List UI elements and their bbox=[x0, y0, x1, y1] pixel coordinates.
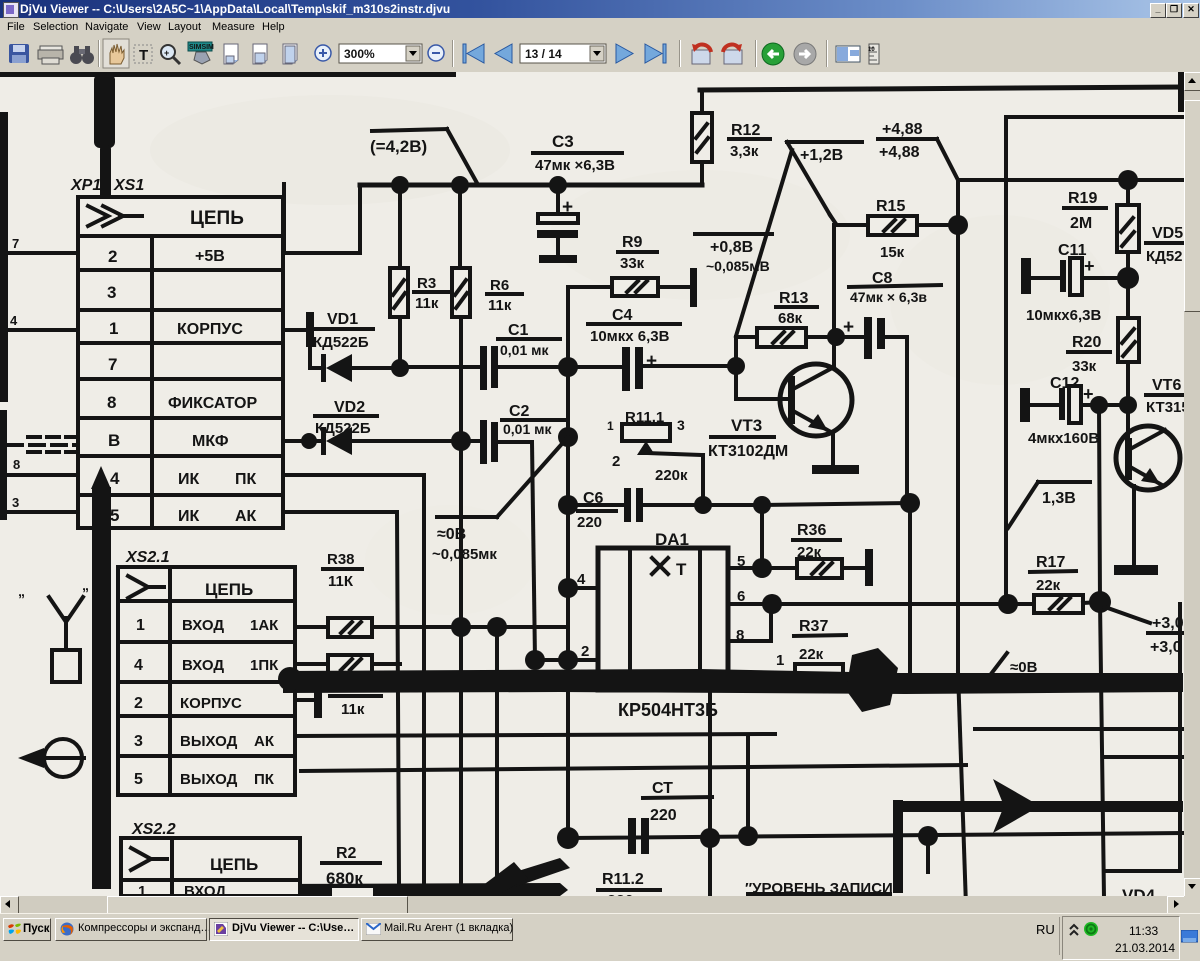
label =0V right pointer bbox=[991, 653, 1038, 676]
node R17 right bbox=[1089, 591, 1111, 613]
svg-text:T: T bbox=[139, 47, 148, 64]
node VD2/R6 bbox=[451, 431, 471, 451]
svg-text:4: 4 bbox=[577, 571, 586, 588]
DA1 pin 4 bbox=[558, 571, 598, 598]
capacitor C2 bbox=[461, 403, 564, 660]
wire VYHOD AK bbox=[295, 734, 775, 736]
svg-text:R19: R19 bbox=[1068, 190, 1097, 207]
scan artifact top edge line bbox=[0, 72, 456, 77]
svg-text:КТ3102ДМ: КТ3102ДМ bbox=[708, 443, 788, 460]
svg-text:1: 1 bbox=[138, 883, 146, 896]
svg-text:R9: R9 bbox=[622, 234, 643, 251]
svg-text:XS1: XS1 bbox=[113, 177, 144, 194]
label +4,88 bbox=[878, 121, 958, 180]
svg-text:ВХОД: ВХОД bbox=[184, 883, 226, 896]
node R11 wiper bbox=[694, 496, 712, 514]
svg-text:0,01 мк: 0,01 мк bbox=[503, 421, 552, 437]
node R15 right bbox=[948, 215, 968, 235]
svg-text:1: 1 bbox=[136, 617, 145, 634]
svg-text:„: „ bbox=[18, 583, 25, 599]
page single bbox=[224, 44, 238, 64]
wire center bus x568 bbox=[566, 287, 570, 838]
svg-text:R12: R12 bbox=[731, 122, 760, 139]
DA1 pin 5 bbox=[728, 505, 797, 578]
svg-text:0,01 мк: 0,01 мк bbox=[500, 342, 549, 358]
wire bottom rail h837 bbox=[568, 833, 1183, 838]
svg-text:6: 6 bbox=[737, 588, 745, 605]
svg-text:В: В bbox=[108, 431, 120, 450]
svg-text:33к: 33к bbox=[1072, 358, 1097, 375]
svg-text:ЦЕПЬ: ЦЕПЬ bbox=[190, 208, 244, 229]
svg-text:5: 5 bbox=[110, 506, 119, 525]
svg-text:C4: C4 bbox=[612, 307, 633, 324]
wire tap rail x497 bbox=[495, 627, 499, 884]
svg-text:2: 2 bbox=[612, 453, 620, 470]
svg-text:10мкх 6,3В: 10мкх 6,3В bbox=[590, 328, 670, 345]
resistor R11.2 bbox=[598, 871, 660, 910]
svg-text:КОРПУС: КОРПУС bbox=[177, 321, 243, 338]
svg-text:11к: 11к bbox=[415, 295, 439, 312]
svg-text:SIMSIM: SIMSIM bbox=[189, 44, 214, 51]
svg-text:22к: 22к bbox=[799, 646, 824, 663]
svg-text:ВЫХОД: ВЫХОД bbox=[180, 771, 238, 788]
svg-text:КД522Б: КД522Б bbox=[313, 334, 369, 351]
svg-text:C6: C6 bbox=[583, 490, 604, 507]
separator bbox=[452, 40, 453, 67]
node h833 bbox=[918, 826, 938, 872]
connector XS2.2 label bbox=[131, 821, 176, 838]
svg-text:~0,085мВ: ~0,085мВ bbox=[706, 258, 770, 274]
svg-text:КР504НТ3Б: КР504НТ3Б bbox=[618, 700, 718, 720]
svg-text:R2: R2 bbox=[336, 845, 357, 862]
svg-text:XS2.1: XS2.1 bbox=[125, 549, 170, 566]
node R19/R20 bbox=[1117, 267, 1139, 289]
svg-text:МКФ: МКФ bbox=[192, 433, 229, 450]
stamp tool bbox=[188, 42, 214, 64]
svg-text:300%: 300% bbox=[344, 47, 375, 61]
print bbox=[38, 46, 63, 64]
capacitor C12 bbox=[1020, 375, 1128, 447]
node C12 bbox=[1090, 396, 1137, 414]
svg-text:+4,88: +4,88 bbox=[879, 144, 920, 161]
resistor R38 bbox=[295, 551, 568, 637]
rotate left bbox=[692, 44, 711, 64]
zoom out bbox=[428, 45, 444, 61]
svg-text:R6: R6 bbox=[490, 277, 509, 294]
svg-text:VD1: VD1 bbox=[327, 311, 358, 328]
svg-text:1: 1 bbox=[776, 652, 784, 669]
resistor R17 bbox=[998, 554, 1100, 614]
label +1,2V bbox=[787, 142, 862, 224]
connector table XP1/XS1 bbox=[78, 197, 283, 528]
antenna symbol bbox=[18, 577, 89, 682]
back bbox=[762, 43, 784, 65]
scan artifact thick band bbox=[278, 648, 1183, 712]
connector XS2.1 label bbox=[125, 549, 170, 566]
label +3,0 pointer bbox=[1105, 607, 1184, 656]
binoculars bbox=[70, 46, 94, 64]
svg-text:C2: C2 bbox=[509, 403, 530, 420]
zoom in bbox=[315, 45, 331, 61]
svg-text:2: 2 bbox=[134, 695, 143, 712]
capacitor CT bbox=[628, 780, 712, 854]
svg-text:КД52: КД52 bbox=[1146, 248, 1183, 265]
svg-text:22к: 22к bbox=[1036, 577, 1061, 594]
scan artifact right edge bbox=[1178, 72, 1184, 112]
DA1 pin 6 bbox=[728, 588, 1008, 614]
node base rail bbox=[900, 493, 920, 513]
svg-text:1: 1 bbox=[607, 419, 614, 433]
wire rail x710 bbox=[708, 694, 712, 896]
svg-text:4: 4 bbox=[110, 469, 120, 488]
potentiometer R11.1 bbox=[607, 409, 703, 505]
svg-text:VT3: VT3 bbox=[731, 416, 762, 435]
resistor R3 bbox=[390, 185, 449, 367]
svg-text:1: 1 bbox=[109, 319, 118, 338]
node C6 bus bbox=[558, 495, 578, 515]
first page bbox=[463, 44, 484, 63]
separator bbox=[826, 40, 827, 67]
svg-text:4: 4 bbox=[10, 313, 18, 328]
connector table XS2.1 bbox=[118, 567, 295, 795]
node pin5 riser bbox=[753, 496, 771, 514]
vertical scrollbar bbox=[1184, 72, 1200, 896]
label KR504NT3B bbox=[618, 700, 718, 720]
capacitor C11 bbox=[1021, 242, 1128, 324]
wire C6 to VT3 base node bbox=[762, 503, 910, 505]
svg-text:8: 8 bbox=[107, 393, 116, 412]
svg-text:R3: R3 bbox=[417, 275, 436, 292]
wire upper loop to R12 bbox=[700, 90, 704, 185]
resistor R12 bbox=[692, 113, 770, 162]
svg-text:ЦЕПЬ: ЦЕПЬ bbox=[205, 580, 253, 599]
label =0V pointer bbox=[432, 437, 568, 563]
diode VD1 bbox=[283, 311, 400, 382]
node C2 bus bbox=[558, 427, 578, 447]
page continuous bbox=[283, 44, 297, 64]
page facing bbox=[253, 44, 267, 64]
svg-text:3: 3 bbox=[134, 733, 143, 750]
svg-text:АК: АК bbox=[254, 733, 275, 750]
node on rail bbox=[391, 176, 567, 194]
wire VD1 node to C1 bbox=[400, 365, 482, 369]
wire rail x748 bbox=[746, 735, 750, 836]
svg-text:47мк ×6,3В: 47мк ×6,3В bbox=[535, 157, 615, 174]
resistor R19 bbox=[1064, 170, 1139, 278]
label +0,8V pointer bbox=[695, 150, 792, 336]
page combo bbox=[520, 44, 606, 63]
svg-text:4мкх160В: 4мкх160В bbox=[1028, 430, 1099, 447]
resistor R20 bbox=[1068, 278, 1139, 405]
wire frame corner bbox=[1006, 117, 1183, 604]
svg-text:КОРПУС: КОРПУС bbox=[180, 695, 242, 712]
XS2.1 socket symbol bbox=[128, 576, 164, 598]
svg-text:C1: C1 bbox=[508, 322, 529, 339]
prev page bbox=[495, 44, 512, 63]
resistor R2 bbox=[322, 845, 380, 906]
svg-text:5: 5 bbox=[134, 771, 143, 788]
resistor R37 bbox=[794, 618, 846, 682]
wire top bus bbox=[700, 87, 1183, 90]
scan artifact top blob bbox=[94, 74, 115, 200]
svg-text:+1,2В: +1,2В bbox=[800, 147, 843, 164]
svg-text:8: 8 bbox=[13, 457, 20, 472]
svg-text:10мкх6,3В: 10мкх6,3В bbox=[1026, 307, 1101, 324]
svg-text:5: 5 bbox=[737, 553, 745, 570]
svg-text:ПК: ПК bbox=[235, 471, 257, 488]
svg-text:7: 7 bbox=[12, 236, 19, 251]
svg-text:(=4,2В): (=4,2В) bbox=[370, 137, 427, 156]
svg-text:ЦЕПЬ: ЦЕПЬ bbox=[210, 855, 258, 874]
svg-text:СТ: СТ bbox=[652, 780, 673, 797]
XS2.2 socket symbol bbox=[131, 848, 167, 870]
left pin 8 wire bbox=[8, 457, 78, 475]
T select bbox=[134, 45, 152, 64]
separator bbox=[679, 40, 680, 67]
diode VD5 label bbox=[1146, 225, 1183, 265]
left pin 4 wire bbox=[2, 313, 78, 330]
DA1 pin 8 bbox=[728, 604, 771, 644]
node CT left bbox=[557, 827, 579, 849]
left pin 7 wire bbox=[2, 236, 78, 253]
IC DA1 bbox=[598, 530, 728, 690]
svg-text:1ПК: 1ПК bbox=[250, 657, 279, 674]
connector XP1/XS1 labels bbox=[70, 177, 144, 194]
capacitor C4 bbox=[568, 307, 736, 391]
svg-text:220: 220 bbox=[577, 514, 602, 531]
node C4 right bbox=[727, 357, 745, 375]
resistor R9 bbox=[568, 234, 697, 307]
magnifier bbox=[161, 45, 180, 64]
node collector/R13 bbox=[827, 328, 845, 346]
wire grid right h872 bbox=[1104, 869, 1180, 873]
node VD1/R3 bbox=[391, 359, 409, 377]
svg-text:R17: R17 bbox=[1036, 554, 1065, 571]
left dashed wires bbox=[8, 437, 78, 452]
DA1 pin 1 bbox=[776, 652, 784, 669]
svg-text:3: 3 bbox=[677, 417, 685, 433]
wire right rail bbox=[958, 178, 1183, 182]
svg-text:47мк × 6,3в: 47мк × 6,3в bbox=[850, 289, 927, 305]
rotate right bbox=[723, 44, 742, 64]
svg-text:АК: АК bbox=[235, 508, 257, 525]
svg-text:3,3к: 3,3к bbox=[730, 143, 759, 160]
connector table XS2.2 bbox=[121, 838, 300, 900]
label 1,3V pointer bbox=[1008, 482, 1090, 528]
svg-text:7: 7 bbox=[108, 355, 117, 374]
svg-text:R38: R38 bbox=[327, 551, 355, 568]
svg-text:ВХОД: ВХОД bbox=[182, 617, 224, 634]
transistor VT3 bbox=[708, 364, 859, 474]
svg-text:ИК: ИК bbox=[178, 508, 200, 525]
measure icon bbox=[868, 44, 879, 64]
svg-text:R15: R15 bbox=[876, 198, 905, 215]
svg-text:+4,88: +4,88 bbox=[882, 121, 923, 138]
svg-text:8: 8 bbox=[736, 627, 744, 644]
svg-text:11к: 11к bbox=[341, 701, 365, 718]
transistor VT6 bbox=[1114, 377, 1190, 575]
resistor R39 bbox=[295, 655, 400, 718]
svg-text:2: 2 bbox=[108, 247, 117, 266]
wire VYHOD PK bbox=[301, 765, 966, 771]
svg-text:VT6: VT6 bbox=[1152, 377, 1181, 394]
terminal KORPUS XS2.1 bbox=[295, 687, 322, 718]
record level thick arrow bbox=[893, 779, 1183, 893]
wire emitter node row bbox=[568, 503, 625, 507]
scan artifact bottom band bbox=[270, 858, 570, 897]
wire rail x1100 lower bbox=[1100, 602, 1104, 898]
last page bbox=[645, 44, 666, 63]
wire bus x958 bbox=[958, 180, 966, 906]
svg-text:68к: 68к bbox=[778, 310, 803, 327]
svg-text:+5В: +5В bbox=[195, 248, 225, 265]
svg-text:ПК: ПК bbox=[254, 771, 275, 788]
svg-text:ФИКСАТОР: ФИКСАТОР bbox=[168, 395, 257, 412]
forward bbox=[794, 43, 816, 65]
svg-text:+: + bbox=[646, 351, 657, 372]
capacitor C8 bbox=[837, 270, 941, 503]
svg-text:VD5: VD5 bbox=[1152, 225, 1183, 242]
wire tap rail x461 bbox=[459, 441, 463, 884]
svg-text:КТ315: КТ315 bbox=[1146, 399, 1184, 416]
wire VT3 collector rail bbox=[832, 225, 836, 368]
svg-text:R36: R36 bbox=[797, 522, 826, 539]
capacitor C3 bbox=[533, 132, 622, 263]
node CT right bbox=[700, 826, 758, 848]
capacitor C6 bbox=[577, 488, 762, 531]
wire main top rail bbox=[360, 183, 702, 188]
svg-text:≈0В: ≈0В bbox=[1010, 659, 1038, 676]
svg-text:+0,8В: +0,8В bbox=[710, 239, 753, 256]
table texts bbox=[107, 208, 257, 525]
svg-text:XS2.2: XS2.2 bbox=[131, 821, 176, 838]
svg-text:220: 220 bbox=[650, 807, 677, 824]
capacitor C1 bbox=[480, 322, 568, 390]
svg-text:+: + bbox=[1084, 256, 1095, 276]
resistor R13 bbox=[736, 290, 836, 365]
svg-text:R37: R37 bbox=[799, 618, 828, 635]
svg-text:10: 10 bbox=[868, 47, 875, 53]
hand-drawn thick arrow up bbox=[91, 466, 111, 889]
svg-text:~0,085мк: ~0,085мк bbox=[432, 546, 497, 563]
svg-text:+: + bbox=[164, 48, 169, 58]
node R38 taps bbox=[451, 617, 507, 637]
svg-text:Т: Т bbox=[676, 560, 687, 579]
node C1 bus bbox=[558, 357, 578, 377]
svg-text:11к: 11к bbox=[488, 297, 512, 314]
separator bbox=[98, 40, 99, 67]
svg-text:220к: 220к bbox=[655, 467, 688, 484]
svg-text:1АК: 1АК bbox=[250, 617, 279, 634]
svg-text:„: „ bbox=[82, 577, 89, 593]
svg-text:ВЫХОД: ВЫХОД bbox=[180, 733, 238, 750]
wire rail x1180 bbox=[1178, 604, 1182, 871]
svg-text:15к: 15к bbox=[880, 244, 905, 261]
svg-text:R13: R13 bbox=[779, 290, 808, 307]
label record level bbox=[745, 880, 893, 897]
save floppy bbox=[9, 44, 29, 63]
svg-text:VD4: VD4 bbox=[1122, 886, 1156, 896]
svg-text:ИК: ИК bbox=[178, 471, 200, 488]
svg-text:C3: C3 bbox=[552, 132, 574, 151]
resistor R36 bbox=[793, 522, 873, 586]
wire +5V from table bbox=[283, 184, 360, 253]
connector plug symbol bbox=[88, 206, 142, 226]
horizontal scrollbar bbox=[0, 896, 1184, 913]
svg-text:R20: R20 bbox=[1072, 334, 1101, 351]
svg-text:2М: 2М bbox=[1070, 215, 1092, 232]
svg-text:33к: 33к bbox=[620, 255, 645, 272]
svg-text:3: 3 bbox=[12, 495, 19, 510]
book view bbox=[836, 46, 860, 62]
wire C12 rail down bbox=[1099, 405, 1100, 602]
resistor R6 bbox=[452, 185, 522, 441]
svg-text:1,3В: 1,3В bbox=[1042, 490, 1076, 507]
wire IK PK down rail bbox=[283, 475, 424, 884]
XS2.1 texts bbox=[134, 580, 279, 788]
DA1 pin 2 bbox=[525, 643, 598, 670]
svg-text:3: 3 bbox=[107, 283, 116, 302]
resistor R15 bbox=[834, 198, 958, 261]
separator bbox=[755, 40, 756, 67]
svg-text:ВХОД: ВХОД bbox=[182, 657, 224, 674]
label VD4 bbox=[1122, 886, 1156, 905]
svg-text:4: 4 bbox=[134, 657, 143, 674]
wire grid right h757 bbox=[1104, 755, 1183, 759]
left pin 3 wire bbox=[8, 495, 78, 512]
hand tool (selected) bbox=[103, 39, 129, 68]
svg-text:XP1: XP1 bbox=[70, 177, 101, 194]
diode VD2 bbox=[283, 399, 461, 455]
svg-text:+3,0: +3,0 bbox=[1150, 639, 1182, 656]
svg-text:13 / 14: 13 / 14 bbox=[525, 47, 562, 61]
svg-text:VD2: VD2 bbox=[334, 399, 365, 416]
svg-text:2: 2 bbox=[581, 643, 589, 660]
zoom combo bbox=[339, 44, 422, 63]
svg-text:11К: 11К bbox=[328, 573, 354, 590]
wire IK AK down rail bbox=[283, 512, 399, 884]
scan artifact left edge bar bbox=[0, 112, 8, 520]
label (=4,2V) bbox=[370, 129, 477, 183]
svg-text:R11.2: R11.2 bbox=[602, 871, 644, 888]
probe circle arrow bbox=[18, 739, 84, 777]
next page bbox=[616, 44, 633, 63]
wire rail x910 down bbox=[908, 503, 912, 672]
wire grid right h729 bbox=[975, 727, 1183, 731]
